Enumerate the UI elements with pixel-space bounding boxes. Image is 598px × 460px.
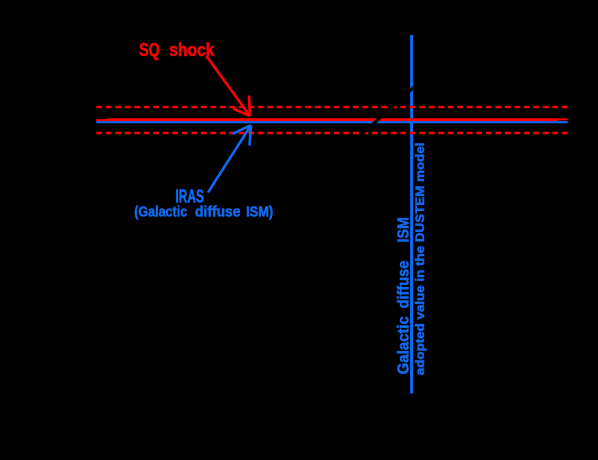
svg-text:adopted value in the DUSTEM mo: adopted value in the DUSTEM model	[413, 143, 427, 376]
red arrowhead	[233, 96, 250, 117]
svg-text:Galactic: Galactic	[395, 316, 412, 374]
red arrow line	[207, 56, 251, 116]
svg-text:(Galactic: (Galactic	[134, 205, 187, 221]
black data curve (visible only as notches over colored lines)	[352, 78, 424, 143]
lower dashed red line	[96, 132, 567, 134]
svg-text:diffuse: diffuse	[395, 261, 412, 309]
svg-text:ISM): ISM)	[246, 205, 273, 221]
blue arrowhead	[233, 125, 252, 145]
vertical blue line (adopted value marker)	[410, 35, 413, 394]
svg-text:ISM: ISM	[395, 217, 412, 242]
solid red line (thin left end)	[96, 119, 106, 121]
upper dashed red line	[96, 106, 567, 108]
solid red line (main)	[107, 118, 558, 121]
blue arrow line	[208, 125, 251, 192]
svg-text:SQ: SQ	[139, 40, 160, 60]
svg-text:diffuse: diffuse	[195, 205, 241, 221]
solid blue line	[96, 121, 567, 123]
solid red line (thin right end)	[558, 118, 568, 120]
